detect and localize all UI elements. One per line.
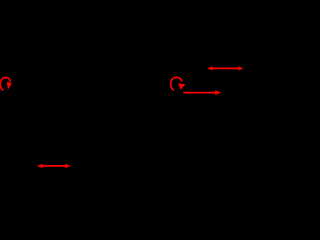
resonance double-headed arrow (bottom left) <box>37 164 71 168</box>
resonance double-headed arrow (top right) <box>207 66 243 70</box>
curved arrow (electron-pushing) near carbonyl O <box>171 77 186 90</box>
reaction arrow (single head, right) <box>183 90 221 95</box>
curved arrow (electron-pushing) at left edge <box>0 77 12 90</box>
